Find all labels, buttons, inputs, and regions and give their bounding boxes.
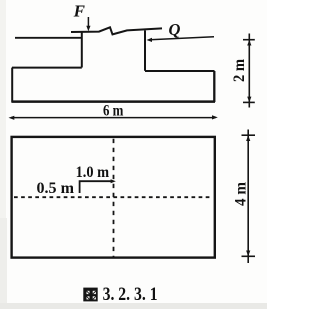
horizontal centerline (dashed) [14,196,210,198]
svg-text:6 m: 6 m [103,103,124,120]
force F arrow [87,17,89,28]
wire: pier left edge [81,32,83,68]
svg-text:3. 2. 3. 1: 3. 2. 3. 1 [103,285,158,305]
force Q arrow [150,37,214,40]
wire: pier right edge [144,30,146,70]
scan edge shading bottom [0,303,267,309]
wire: left step top [12,67,82,69]
eccentricity bracket (0.5m / 1.0m offsets) [80,181,112,193]
dimension 6m line [11,117,216,119]
svg-text:4 m: 4 m [233,181,250,206]
svg-text:F: F [73,1,86,20]
wire: footing right edge [213,71,215,102]
wire: footing left edge [11,68,13,103]
svg-text:2 m: 2 m [231,58,248,82]
dimension 2m line [248,34,250,108]
plan rectangle [12,137,215,258]
svg-text:Q: Q [169,20,181,39]
wire: left ground line [15,37,82,39]
wire: footing bottom [12,100,216,103]
vertical centerline (dashed) [113,139,115,257]
caption: character 图 (drawn glyph) [83,288,97,302]
dimension 4m line [247,130,249,264]
wire: pier top line with break symbol [71,27,162,34]
scan edge shading left [0,0,6,309]
wire: right step top [145,70,215,72]
svg-text:1.0 m: 1.0 m [76,164,110,181]
svg-text:0.5 m: 0.5 m [37,180,75,197]
